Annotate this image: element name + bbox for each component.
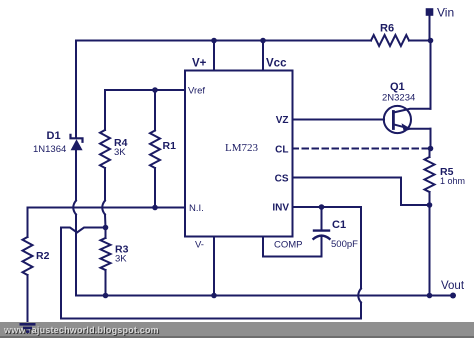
wire INV <box>293 206 362 208</box>
wire R4 bottom lead <box>104 168 106 201</box>
node top rail / Vcc <box>260 38 266 44</box>
wire R3 top lead <box>105 228 107 239</box>
node N.I. / R1 <box>152 205 158 211</box>
svg-text:N.I.: N.I. <box>189 203 204 214</box>
wire node link with dip over D1 branch <box>61 228 106 233</box>
svg-text:V+: V+ <box>192 58 207 70</box>
svg-text:COMP: COMP <box>274 240 303 251</box>
svg-text:R6: R6 <box>380 23 394 35</box>
svg-text:VZ: VZ <box>276 115 289 126</box>
wire R5 top lead <box>429 149 431 158</box>
resistor R6 <box>371 35 409 46</box>
svg-text:V-: V- <box>195 240 204 251</box>
diode D1 triangle <box>71 139 83 150</box>
svg-text:CL: CL <box>275 145 288 156</box>
transistor Q1 circle <box>384 106 411 133</box>
wire R4 branch to node <box>104 215 107 228</box>
wire D1 branch hop over N.I. <box>73 201 76 215</box>
svg-text:C1: C1 <box>332 219 346 231</box>
wire bottom rail <box>76 295 453 297</box>
svg-text:Vout: Vout <box>441 280 465 292</box>
node Vin terminal square <box>426 8 434 16</box>
svg-text:D1: D1 <box>47 130 61 142</box>
resistor R1 <box>150 131 160 169</box>
node CS / R5 bottom <box>427 202 433 208</box>
capacitor C1 bottom lead <box>321 238 323 257</box>
wire collector riser <box>430 41 432 109</box>
node R3 top <box>103 225 109 231</box>
node bottom rail / V- <box>211 293 217 299</box>
node bottom rail / R3 <box>103 293 109 299</box>
wire R2 top lead <box>27 208 29 238</box>
wire R5 bottom lead <box>429 192 431 205</box>
svg-text:3K: 3K <box>115 254 127 265</box>
wire R2 bottom lead <box>27 275 29 323</box>
node INV / C1 <box>319 204 325 210</box>
wire Vin drop <box>429 15 431 41</box>
node Vout terminal <box>450 293 456 299</box>
node top rail / V+ <box>211 38 217 44</box>
diode D1 zener cathode bar <box>71 135 83 142</box>
wire D1 branch upper <box>75 41 77 139</box>
wire COMP <box>263 237 322 257</box>
capacitor C1 plates <box>314 231 330 239</box>
watermark bar <box>0 322 474 338</box>
op-amp U1 LM723 box <box>185 71 293 237</box>
svg-text:500pF: 500pF <box>331 239 358 250</box>
wire top rail right of R6 <box>409 40 431 42</box>
svg-text:Vcc: Vcc <box>266 58 287 70</box>
node emitter / CL / R5 <box>428 146 434 152</box>
svg-text:R1: R1 <box>163 140 177 152</box>
node Vref / R1 <box>152 87 158 93</box>
svg-text:CS: CS <box>275 174 289 185</box>
wire to Vout <box>429 205 431 296</box>
wire top rail left <box>76 40 371 42</box>
wire R1 top lead <box>154 90 156 131</box>
wire R3 bottom lead <box>105 270 107 296</box>
transistor Q1 collector <box>393 109 430 113</box>
node Vin junction <box>428 38 434 44</box>
wire INV-loop left vertical <box>60 228 62 319</box>
svg-text:1 ohm: 1 ohm <box>440 176 465 186</box>
transistor Q1 base bar <box>392 112 395 129</box>
wire INV-loop hop over bottom rail <box>358 289 361 303</box>
wire D1 branch to bottom rail <box>75 215 77 296</box>
resistor R3 <box>101 238 111 270</box>
ground redrawn over bar <box>15 322 55 338</box>
wire Vcc stub <box>262 41 264 71</box>
svg-text:R2: R2 <box>36 250 50 262</box>
svg-text:Vin: Vin <box>437 6 454 20</box>
wire CL dashed <box>293 148 431 150</box>
wire R4 top lead <box>104 90 106 130</box>
capacitor C1 top lead <box>321 207 323 230</box>
resistor R5 <box>425 157 435 192</box>
wire INV-loop right vertical lower <box>360 303 362 319</box>
wire R1 bottom lead <box>154 168 156 208</box>
svg-text:Vref: Vref <box>188 86 205 97</box>
wire V+ stub <box>213 41 215 71</box>
resistor R2 <box>23 237 33 275</box>
wire Vref line <box>105 89 185 91</box>
wire N.I. line <box>28 207 186 209</box>
svg-text:LM723: LM723 <box>225 142 259 154</box>
svg-text:2N3234: 2N3234 <box>382 93 415 104</box>
svg-text:INV: INV <box>272 203 289 214</box>
resistor R4 <box>100 130 110 168</box>
svg-text:3K: 3K <box>114 147 126 158</box>
wire VZ to base <box>293 119 385 121</box>
watermark text <box>4 325 159 335</box>
wire R4 branch hop over N.I. <box>102 201 105 215</box>
wire INV-loop bottom <box>61 318 361 320</box>
node bottom rail / Vout drop <box>427 293 433 299</box>
wire INV-loop right vertical upper <box>360 207 362 289</box>
transistor Q1 emitter arrow <box>402 123 412 131</box>
diode D1 lead lower <box>75 150 77 201</box>
svg-text:Q1: Q1 <box>390 81 405 93</box>
wire emitter drop <box>430 129 432 149</box>
wire CS <box>293 178 430 206</box>
svg-text:1N1364: 1N1364 <box>33 144 66 155</box>
transistor Q1 emitter <box>393 124 430 128</box>
wire V- stub <box>213 237 215 296</box>
ground <box>20 324 36 331</box>
